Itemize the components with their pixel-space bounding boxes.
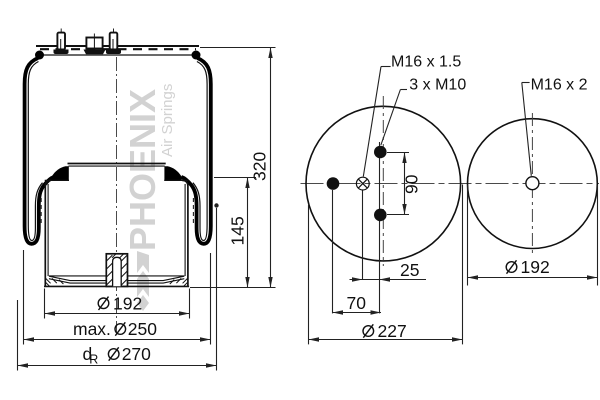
dim max250 text — [73, 319, 157, 339]
bellows clamp bead left — [52, 166, 69, 180]
piston right half — [117, 164, 189, 287]
dimension 320 extension top — [200, 47, 276, 49]
svg-text:max.: max. — [73, 319, 111, 339]
dim max250 extension lines — [23, 250, 25, 345]
piston left half — [45, 164, 117, 287]
dim 192r extension lines — [467, 185, 469, 286]
svg-text:25: 25 — [400, 260, 419, 280]
bellows outline left half — [25, 58, 54, 244]
svg-text:192: 192 — [113, 294, 142, 314]
svg-text:PHOENIX: PHOENIX — [122, 89, 163, 251]
dimension 145 extension top — [214, 177, 256, 179]
bead plate crimp dashes — [40, 48, 196, 50]
dim max250 line — [24, 339, 211, 341]
horizontal centerline across both circles — [301, 183, 600, 185]
dim 192 text — [98, 294, 142, 314]
dim 70 line — [333, 312, 382, 314]
bolt hole — [113, 257, 122, 286]
dim dR270 text — [83, 344, 152, 367]
svg-text:270: 270 — [122, 344, 151, 364]
right vertical centerline — [531, 113, 533, 254]
svg-text:70: 70 — [347, 293, 367, 313]
dim 192 extension lines — [44, 289, 46, 319]
boss hatching — [107, 254, 128, 285]
M16x1.5 port symbol — [356, 177, 369, 190]
air fitting block — [84, 34, 106, 55]
bead plate bottom line — [40, 54, 194, 56]
bellows clamp bead right — [164, 166, 181, 180]
dim 227 text — [363, 321, 407, 341]
bellows outline right half — [181, 58, 210, 244]
dimension bottom extension — [190, 287, 276, 289]
stud 1 — [54, 29, 69, 55]
dim 25 line — [350, 279, 427, 281]
svg-text:M16 x 2: M16 x 2 — [531, 77, 588, 94]
dim 90 extension lines — [387, 152, 409, 154]
M16x2 center symbol — [526, 177, 539, 190]
dimension 145 line — [247, 178, 249, 288]
piston base bottom line — [44, 285, 189, 287]
svg-text:M16 x 1.5: M16 x 1.5 — [391, 54, 461, 71]
svg-text:3 x M10: 3 x M10 — [409, 77, 466, 94]
svg-text:145: 145 — [228, 216, 248, 245]
left stud extension line — [332, 190, 334, 313]
leader M16x2 — [522, 77, 588, 176]
bead plate right rolled edge — [192, 51, 201, 60]
dim 192r line — [468, 277, 598, 279]
hidden edge dashes left lobe — [40, 198, 42, 226]
watermark PHOENIX text — [122, 84, 176, 311]
dimension 320 line — [270, 48, 272, 288]
svg-text:320: 320 — [250, 152, 270, 181]
dim 227 extension lines — [308, 205, 310, 344]
dim 192r text — [506, 257, 550, 277]
left view centerline — [116, 57, 118, 332]
upper M10 stud dot — [374, 146, 387, 159]
dim 227 line — [309, 339, 463, 341]
dim 90 line — [404, 153, 406, 215]
leader M16x1.5 — [363, 54, 461, 177]
dim 192 line — [45, 313, 190, 315]
stud 2 — [106, 29, 121, 55]
svg-text:192: 192 — [521, 257, 550, 277]
M10 stud line vertical — [379, 142, 381, 313]
middle vertical centerline — [382, 96, 384, 266]
leader 3xM10 — [381, 77, 466, 146]
right circle — [468, 119, 598, 249]
svg-text:250: 250 — [128, 319, 157, 339]
port extension line — [362, 190, 364, 280]
piston center boss — [106, 254, 127, 287]
dim dR270 extension lines — [17, 300, 19, 371]
hidden edge dashes right lobe — [192, 198, 194, 226]
lower M10 stud dot — [374, 209, 387, 222]
svg-text:R: R — [89, 353, 98, 367]
watermark chevron logo — [137, 251, 149, 273]
svg-text:90: 90 — [402, 174, 422, 194]
svg-text:227: 227 — [378, 321, 407, 341]
bead plate top line — [36, 45, 199, 47]
dim dR270 line — [18, 365, 217, 367]
middle circle — [306, 106, 461, 261]
bead plate left rolled edge — [35, 51, 44, 60]
left M10 stud dot — [327, 177, 340, 190]
svg-text:Air Springs: Air Springs — [159, 84, 176, 157]
